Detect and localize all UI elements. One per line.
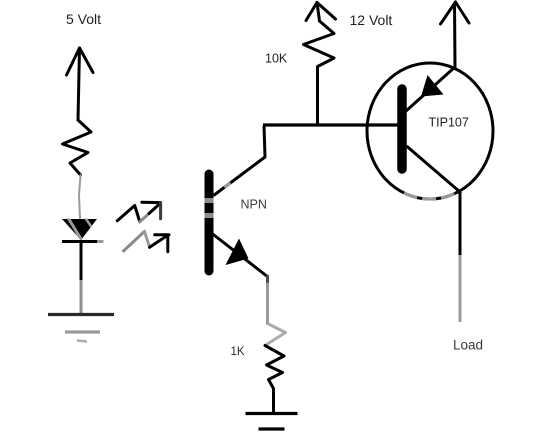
light arrow B — [124, 231, 170, 251]
svg-text:1K: 1K — [231, 346, 245, 358]
wire resistor to LED — [79, 175, 81, 218]
Q1 emitter arrowhead — [226, 239, 249, 266]
ground bottom — [246, 414, 298, 430]
Q2 base bar — [397, 89, 407, 169]
resistor R2 1K — [265, 346, 284, 413]
wire LED to ground — [80, 242, 83, 314]
wire Q2 collector — [407, 146, 461, 192]
Q2 emitter arrowhead — [421, 75, 444, 97]
wire Q2 emitter to arrow — [406, 3, 455, 112]
svg-text:5 Volt: 5 Volt — [66, 11, 101, 27]
svg-text:12 Volt: 12 Volt — [350, 12, 393, 28]
wire emitter to 1K (gray) — [266, 276, 269, 284]
svg-text:Load: Load — [453, 338, 483, 353]
ground left — [48, 315, 114, 342]
svg-text:NPN: NPN — [241, 198, 267, 212]
resistor R-left — [63, 120, 92, 175]
LED D1 — [62, 216, 104, 244]
wire to load — [459, 192, 462, 322]
wire Q1 emitter — [212, 234, 268, 278]
light arrow A — [117, 202, 160, 222]
gray arc bottom — [404, 193, 455, 199]
wire base rail — [263, 123, 401, 126]
power arrow out — [441, 2, 470, 24]
resistor R3 10K — [304, 21, 335, 125]
svg-text:10K: 10K — [265, 52, 288, 66]
svg-text:TIP107: TIP107 — [429, 116, 469, 130]
transistor Q1 NPN base bar — [205, 174, 214, 271]
wire Q1 collector — [214, 126, 266, 196]
transistor Q2 TIP107 circle — [367, 63, 493, 199]
power arrow 5V — [67, 48, 94, 120]
power arrow 12V — [306, 3, 336, 22]
